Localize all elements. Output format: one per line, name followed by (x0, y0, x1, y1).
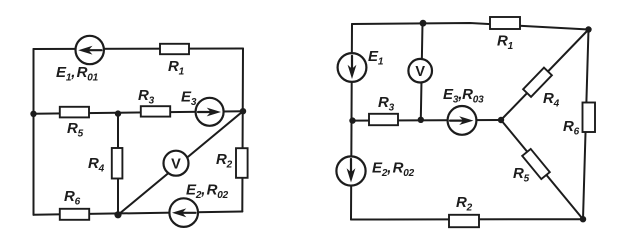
resistor R6 (left ckt) (60, 209, 89, 220)
wire: middle horizontal (34, 111, 244, 114)
resistor R1 (left ckt) (160, 44, 189, 54)
svg-text:V: V (415, 64, 425, 80)
source E3 (circle, arrow right) (196, 98, 224, 126)
svg-text:R5: R5 (513, 165, 530, 185)
svg-text:E2,R02: E2,R02 (186, 182, 229, 202)
wire: diagonal to top-right corner (R4) (501, 30, 589, 121)
svg-text:R6: R6 (64, 188, 81, 208)
wire: top horizontal (slopes slightly down to right corner) (352, 23, 589, 30)
resistor R5 (right ckt, rotated on diagonal) (522, 149, 550, 179)
wire: right vertical (241, 49, 244, 212)
wire: top horizontal (34, 48, 244, 51)
resistor R1 (right ckt, on top wire) (490, 17, 520, 29)
resistor R3 (right ckt) (369, 114, 398, 125)
source E1,R01 (circle, arrow left) (76, 36, 104, 64)
source E2,R02 (circle, arrow down) (336, 156, 365, 185)
svg-text:R1: R1 (168, 58, 185, 78)
svg-text:R6: R6 (563, 118, 580, 138)
node: center node (498, 117, 504, 123)
node: left-middle junction (30, 111, 36, 117)
svg-text:R5: R5 (67, 120, 84, 140)
svg-text:R4: R4 (88, 155, 105, 175)
svg-text:R3: R3 (378, 94, 395, 114)
node: middle top junction (115, 110, 121, 116)
node: left middle junction (349, 117, 355, 123)
svg-text:E3: E3 (181, 89, 197, 109)
svg-text:R2: R2 (456, 194, 473, 214)
svg-text:V: V (171, 157, 181, 173)
node: right middle junction (240, 108, 246, 114)
svg-text:E3,R03: E3,R03 (443, 86, 484, 106)
node: V branch bottom junction (418, 117, 424, 123)
node: top-right corner (585, 26, 591, 32)
svg-text:R4: R4 (543, 90, 560, 110)
resistor R4 (right ckt, rotated on diagonal) (523, 68, 552, 97)
svg-text:E1: E1 (368, 48, 384, 68)
wire: bottom horizontal (351, 218, 583, 220)
voltmeter V (right ckt) (408, 59, 432, 83)
source E3,R03 (circle, arrow right) (448, 106, 477, 135)
svg-text:E1,R01: E1,R01 (56, 64, 99, 84)
voltmeter V (left ckt) (164, 151, 189, 176)
wire: diagonal with voltmeter (118, 111, 243, 215)
wire: left vertical (351, 24, 352, 220)
wire: middle horizontal (352, 119, 502, 122)
svg-text:R2: R2 (216, 151, 233, 171)
svg-text:R3: R3 (138, 87, 155, 107)
wire: right vertical (583, 30, 589, 220)
wire: voltmeter branch vertical (421, 23, 423, 120)
node: bottom-right corner (580, 216, 586, 222)
wire: diagonal to bottom-right corner (R5) (501, 120, 583, 219)
svg-text:R1: R1 (497, 33, 514, 53)
node: middle bottom junction (114, 211, 121, 218)
resistor R2 (left ckt, vertical) (236, 148, 248, 178)
source E2,R02 (circle, arrow left) (169, 198, 198, 227)
node: top wire junction (V branch) (420, 20, 427, 27)
wire: left vertical (node between E1 branch top and bottom) (33, 49, 35, 215)
wire: bottom horizontal (34, 212, 243, 215)
svg-text:E2,R02: E2,R02 (372, 160, 415, 180)
wire: middle vertical through R4 (117, 114, 119, 215)
resistor R3 (left ckt) (141, 106, 170, 116)
resistor R6 (right ckt, vertical) (583, 103, 596, 133)
resistor R5 (60, 107, 89, 118)
source E1 (circle, arrow down) (338, 53, 367, 82)
resistor R2 (right ckt) (449, 215, 479, 227)
resistor R4 (vertical) (112, 148, 123, 179)
